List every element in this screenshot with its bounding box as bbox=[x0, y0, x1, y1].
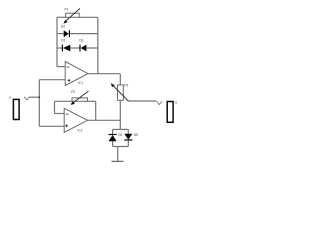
wire input bus vertical bbox=[38, 80, 40, 127]
wire U1 inverting input bbox=[57, 66, 65, 68]
wire D4 stubs bbox=[112, 129, 114, 134]
svg-text:IC1: IC1 bbox=[78, 81, 83, 85]
diode D4 bbox=[109, 133, 123, 141]
svg-text:D1: D1 bbox=[61, 38, 65, 42]
svg-text:D5: D5 bbox=[134, 133, 138, 137]
wire U1 output down to P3 bbox=[119, 74, 121, 85]
wire D3 anode lead bbox=[86, 47, 97, 49]
ground bbox=[112, 160, 124, 162]
wire U1 output bbox=[88, 73, 120, 75]
wire U2 non-inverting input bbox=[39, 125, 64, 127]
diode D2 bbox=[61, 24, 69, 37]
wire from J1 port to input bus bbox=[30, 96, 40, 98]
svg-text:P1: P1 bbox=[65, 8, 69, 12]
wire top branch left lead bbox=[57, 16, 66, 18]
wire U2 feedback right vertical bbox=[95, 101, 97, 120]
diode D3 bbox=[79, 38, 86, 51]
port arrow at J1 bbox=[24, 97, 30, 100]
wire ground stem bbox=[117, 147, 119, 162]
diode D5 bbox=[124, 133, 138, 140]
connector J2 bbox=[167, 100, 178, 122]
port arrow at J2 bbox=[157, 101, 162, 104]
wire U2 feedback left vertical bbox=[54, 101, 56, 113]
wire D2 cathode lead bbox=[69, 33, 97, 35]
wire right rail of feedback network bbox=[97, 17, 99, 73]
op-amp IC1 bbox=[65, 62, 88, 86]
wire U2 feedback top left lead bbox=[55, 100, 73, 102]
svg-text:J2: J2 bbox=[174, 100, 177, 104]
svg-text:IC2: IC2 bbox=[77, 128, 82, 132]
wire D2 anode lead bbox=[57, 33, 64, 35]
wire U2 output bbox=[88, 119, 121, 121]
wire P3 wiper to J2 port bbox=[128, 100, 156, 102]
wire D1-D3 middle link bbox=[70, 47, 80, 49]
connector J1 bbox=[9, 96, 19, 120]
svg-text:D3: D3 bbox=[79, 38, 83, 42]
wire U2 feedback left bbox=[55, 113, 65, 115]
junction at input bus bbox=[38, 96, 40, 98]
svg-text:D4: D4 bbox=[118, 133, 122, 137]
potentiometer P3 bbox=[111, 83, 129, 101]
diode D1 bbox=[61, 38, 70, 51]
svg-text:J1: J1 bbox=[9, 96, 12, 100]
potentiometer P1 bbox=[63, 8, 80, 24]
wire top branch right lead bbox=[79, 16, 98, 18]
wire D1 cathode lead bbox=[57, 47, 62, 49]
wire U1 non-inverting input bbox=[39, 79, 65, 81]
wire diode clamp top rail bbox=[113, 128, 129, 130]
svg-text:D2: D2 bbox=[61, 24, 65, 28]
wire D5 stubs bbox=[127, 129, 129, 133]
wire diode clamp bottom rail bbox=[113, 146, 129, 148]
wire U2 feedback top right lead bbox=[88, 100, 96, 102]
wire P3 bottom to diode clamp bbox=[119, 100, 121, 129]
op-amp IC2 bbox=[64, 108, 87, 132]
wire left rail of feedback network bbox=[56, 17, 58, 66]
svg-text:P2: P2 bbox=[71, 90, 75, 94]
svg-text:P3: P3 bbox=[124, 83, 128, 87]
potentiometer P2 bbox=[71, 90, 89, 105]
